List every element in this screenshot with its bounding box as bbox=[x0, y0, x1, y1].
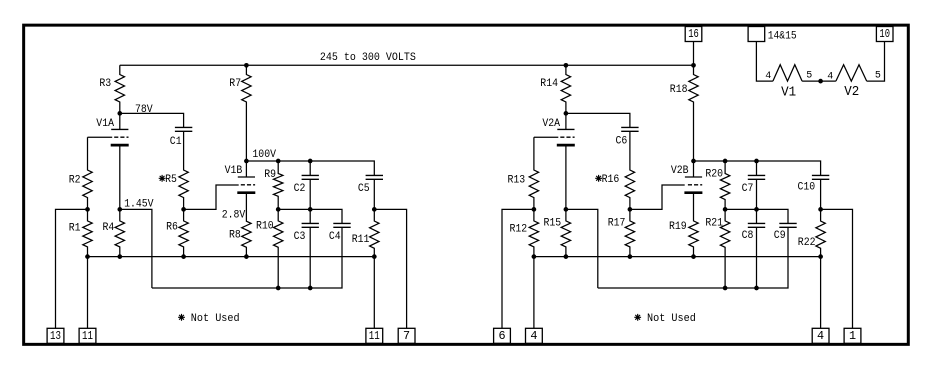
svg-text:4: 4 bbox=[765, 71, 771, 82]
wire V2B plate bbox=[693, 161, 695, 177]
terminal 7 bbox=[398, 328, 415, 343]
capacitor C7 bbox=[748, 175, 765, 179]
node 100V junction bbox=[244, 159, 249, 164]
wire 78V to C1 bbox=[120, 113, 184, 127]
wire 1.45V to lower bus bbox=[120, 209, 152, 288]
terminal 11 right bbox=[366, 328, 383, 343]
junction bbox=[691, 254, 696, 259]
svg-text:5: 5 bbox=[875, 71, 881, 82]
wire V2A junction to C6 bbox=[566, 113, 630, 127]
svg-text:R10: R10 bbox=[256, 221, 274, 233]
svg-text:7: 7 bbox=[403, 329, 410, 343]
svg-text:Not Used: Not Used bbox=[647, 313, 696, 325]
svg-text:R15: R15 bbox=[544, 218, 562, 230]
wire V1A plate bbox=[119, 113, 121, 129]
wire C5 bottom bbox=[373, 179, 375, 209]
wire C2 top bbox=[309, 161, 311, 175]
wire C7 top bbox=[756, 161, 758, 175]
wire cathode bus to lower rail bbox=[566, 209, 598, 288]
svg-text:6: 6 bbox=[498, 329, 505, 343]
capacitor C3 bbox=[302, 223, 319, 227]
capacitor C9 bbox=[779, 223, 796, 227]
svg-text:R20: R20 bbox=[705, 169, 723, 181]
svg-text:13: 13 bbox=[50, 329, 61, 343]
capacitor C5 bbox=[366, 175, 383, 179]
wire to terminal 1 bbox=[821, 209, 853, 328]
svg-text:C1: C1 bbox=[170, 136, 182, 148]
wire C8 top bbox=[756, 209, 758, 223]
svg-text:V2B: V2B bbox=[671, 165, 689, 177]
svg-text:4: 4 bbox=[530, 329, 537, 343]
wire ground rail right bbox=[534, 256, 821, 258]
junction bbox=[308, 207, 313, 212]
node V2B plate junction bbox=[691, 159, 696, 164]
junction bbox=[276, 207, 281, 212]
label *R5 bbox=[159, 175, 166, 182]
junction B+ at R18 bbox=[691, 63, 696, 68]
svg-text:C5: C5 bbox=[358, 183, 370, 195]
wire ground rail left bbox=[88, 256, 375, 258]
junction C2 top bbox=[308, 159, 313, 164]
svg-text:11: 11 bbox=[369, 329, 380, 343]
wire C3 bottom bbox=[309, 227, 311, 288]
junction bbox=[308, 286, 313, 291]
junction B+ at R14 bbox=[564, 63, 569, 68]
svg-text:R8: R8 bbox=[229, 230, 241, 242]
wire terminal 16 lead bbox=[693, 42, 695, 66]
junction R20 top bbox=[723, 159, 728, 164]
svg-text:V1: V1 bbox=[781, 85, 796, 100]
svg-text:R22: R22 bbox=[798, 237, 816, 249]
svg-text:C7: C7 bbox=[742, 183, 754, 195]
svg-text:C4: C4 bbox=[329, 231, 341, 243]
resistor R1 bbox=[83, 209, 92, 256]
wire to terminal 11 right bbox=[373, 257, 375, 329]
svg-text:R11: R11 bbox=[352, 234, 370, 246]
junction bbox=[85, 207, 90, 212]
heater winding V1 bbox=[773, 65, 802, 81]
svg-text:R5: R5 bbox=[165, 174, 177, 186]
capacitor C8 bbox=[748, 223, 765, 227]
resistor R3 bbox=[115, 65, 124, 113]
wire heater mid bbox=[802, 80, 836, 82]
svg-text:V2: V2 bbox=[844, 85, 859, 100]
wire C8 bottom bbox=[756, 227, 758, 288]
svg-text:C6: C6 bbox=[616, 136, 628, 148]
svg-text:V1B: V1B bbox=[225, 165, 243, 177]
svg-text:R16: R16 bbox=[602, 174, 620, 186]
svg-text:4: 4 bbox=[827, 72, 833, 83]
heater winding V2 bbox=[836, 65, 867, 81]
resistor R14 bbox=[561, 65, 570, 113]
resistor R11 bbox=[370, 209, 379, 256]
junction bbox=[276, 286, 281, 291]
terminal 13 bbox=[47, 328, 64, 343]
junction C7 top bbox=[754, 159, 759, 164]
capacitor C4 bbox=[333, 223, 350, 227]
junction bbox=[532, 207, 537, 212]
wire to terminal 7 bbox=[374, 209, 406, 328]
svg-text:C9: C9 bbox=[774, 230, 786, 242]
terminal 16 bbox=[685, 27, 702, 42]
terminal 11 left bbox=[79, 328, 96, 343]
capacitor C2 bbox=[302, 175, 319, 179]
wire 100V rail to C5 bbox=[246, 161, 374, 175]
triode V2A (plate, grid, cathode) bbox=[557, 129, 575, 145]
junction bbox=[628, 207, 633, 212]
junction C10/R22 bbox=[818, 207, 823, 212]
svg-text:R12: R12 bbox=[510, 223, 528, 235]
svg-text:2.8V: 2.8V bbox=[222, 210, 246, 222]
junction bbox=[117, 254, 122, 259]
label * Not Used right bbox=[634, 314, 641, 321]
wire to terminal 4 right bbox=[820, 257, 822, 329]
svg-text:100V: 100V bbox=[252, 149, 276, 161]
svg-text:1: 1 bbox=[849, 329, 856, 343]
junction bbox=[85, 254, 90, 259]
resistor R16 bbox=[625, 131, 634, 209]
junction bbox=[754, 286, 759, 291]
resistor R19 bbox=[689, 193, 698, 257]
resistor R9 bbox=[274, 161, 283, 209]
wire mid bus to C4 bbox=[278, 209, 342, 223]
resistor R17 bbox=[625, 209, 634, 256]
svg-text:245 to 300 VOLTS: 245 to 300 VOLTS bbox=[320, 52, 416, 64]
resistor R22 bbox=[816, 209, 825, 256]
svg-text:4: 4 bbox=[817, 329, 824, 343]
terminal 4 left bbox=[526, 328, 543, 343]
svg-text:14&15: 14&15 bbox=[768, 30, 797, 42]
junction bbox=[723, 207, 728, 212]
junction bbox=[818, 254, 823, 259]
wire C10 bottom bbox=[820, 179, 822, 209]
junction bbox=[532, 254, 537, 259]
svg-text:V1A: V1A bbox=[96, 118, 114, 130]
svg-text:R13: R13 bbox=[508, 175, 526, 187]
junction bbox=[181, 254, 186, 259]
wire mid bus to C9 bbox=[725, 209, 788, 223]
svg-text:R6: R6 bbox=[166, 221, 178, 233]
capacitor C6 bbox=[621, 127, 638, 131]
svg-text:5: 5 bbox=[806, 71, 812, 82]
svg-text:R2: R2 bbox=[69, 174, 81, 186]
terminal 4 right bbox=[812, 328, 829, 343]
svg-text:R3: R3 bbox=[99, 78, 111, 90]
triode V1B (plate, grid, cathode) bbox=[237, 177, 255, 193]
wire C2 bottom bbox=[309, 179, 311, 209]
wire B+ rail 245-300V bbox=[120, 64, 694, 66]
terminal 14&15 box bbox=[748, 27, 765, 42]
wire V1A grid bbox=[88, 136, 113, 138]
resistor R21 bbox=[720, 209, 729, 288]
svg-text:C10: C10 bbox=[798, 182, 816, 194]
svg-text:Not Used: Not Used bbox=[191, 313, 240, 325]
label * Not Used left bbox=[178, 314, 185, 321]
wire V2A plate bbox=[565, 113, 567, 129]
junction B+ at R7 bbox=[244, 63, 249, 68]
junction bbox=[181, 207, 186, 212]
junction bbox=[723, 286, 728, 291]
wire heater to terminal 10 bbox=[867, 42, 885, 82]
wire heater from terminal 14&15 bbox=[756, 42, 773, 82]
wire V2A grid bbox=[534, 136, 558, 138]
wire C3 top bbox=[309, 209, 311, 223]
terminal 1 bbox=[844, 328, 861, 343]
wire V1A cathode bbox=[119, 145, 121, 209]
triode V1A (plate, grid, cathode) bbox=[111, 129, 129, 145]
svg-text:1.45V: 1.45V bbox=[124, 198, 154, 210]
wire node to terminal 13 bbox=[56, 209, 88, 328]
node 78V junction bbox=[117, 111, 122, 116]
junction C5/R11 bbox=[372, 207, 377, 212]
svg-text:10: 10 bbox=[879, 28, 890, 41]
wire node to terminal 6 bbox=[502, 209, 534, 328]
svg-text:C3: C3 bbox=[294, 231, 306, 243]
resistor R10 bbox=[274, 209, 283, 288]
svg-text:R18: R18 bbox=[670, 84, 688, 96]
terminal 10 bbox=[876, 27, 893, 42]
capacitor C10 bbox=[812, 175, 829, 179]
resistor R18 bbox=[689, 65, 698, 161]
svg-text:R4: R4 bbox=[103, 222, 115, 234]
svg-text:R19: R19 bbox=[669, 221, 687, 233]
svg-text:R14: R14 bbox=[540, 78, 558, 90]
wire grid bus V1B bbox=[184, 185, 239, 209]
resistor R15 bbox=[561, 209, 570, 256]
terminal 6 bbox=[494, 328, 511, 343]
junction bbox=[754, 207, 759, 212]
triode V2B (plate, grid, cathode) bbox=[684, 177, 702, 193]
resistor R6 bbox=[179, 209, 188, 256]
svg-text:R7: R7 bbox=[229, 78, 241, 90]
wire grid bus V2B bbox=[630, 185, 685, 209]
svg-text:11: 11 bbox=[82, 329, 93, 343]
junction bbox=[564, 254, 569, 259]
junction bbox=[628, 254, 633, 259]
junction bbox=[372, 254, 377, 259]
resistor R20 bbox=[720, 161, 729, 209]
resistor R2 bbox=[83, 137, 92, 209]
svg-text:C8: C8 bbox=[742, 230, 754, 242]
label *R16 bbox=[595, 175, 602, 182]
svg-text:C2: C2 bbox=[294, 183, 306, 195]
capacitor C1 bbox=[175, 127, 192, 131]
svg-text:R1: R1 bbox=[69, 222, 81, 234]
junction bbox=[244, 254, 249, 259]
wire to terminal 4 left bbox=[533, 257, 535, 329]
junction bbox=[117, 207, 122, 212]
wire lower bus left bbox=[152, 227, 342, 288]
wire lower bus right bbox=[598, 227, 788, 288]
junction bbox=[564, 207, 569, 212]
resistor R12 bbox=[529, 209, 538, 256]
wire V1B plate bbox=[245, 161, 247, 177]
resistor R7 bbox=[242, 65, 251, 161]
junction heater center tap bbox=[818, 79, 823, 84]
wire plate rail to C10 bbox=[694, 161, 821, 175]
resistor R5 bbox=[179, 131, 188, 209]
wire to terminal 11 left bbox=[87, 257, 89, 329]
node V2A plate junction bbox=[564, 111, 569, 116]
wire V2A cathode bbox=[565, 145, 567, 209]
resistor R8 bbox=[242, 193, 251, 257]
svg-text:V2A: V2A bbox=[542, 118, 560, 130]
svg-text:R17: R17 bbox=[608, 218, 626, 230]
resistor R4 bbox=[115, 209, 124, 256]
resistor R13 bbox=[529, 137, 538, 209]
junction R9 top bbox=[276, 159, 281, 164]
wire C7 bottom bbox=[756, 179, 758, 209]
svg-text:16: 16 bbox=[688, 28, 699, 41]
